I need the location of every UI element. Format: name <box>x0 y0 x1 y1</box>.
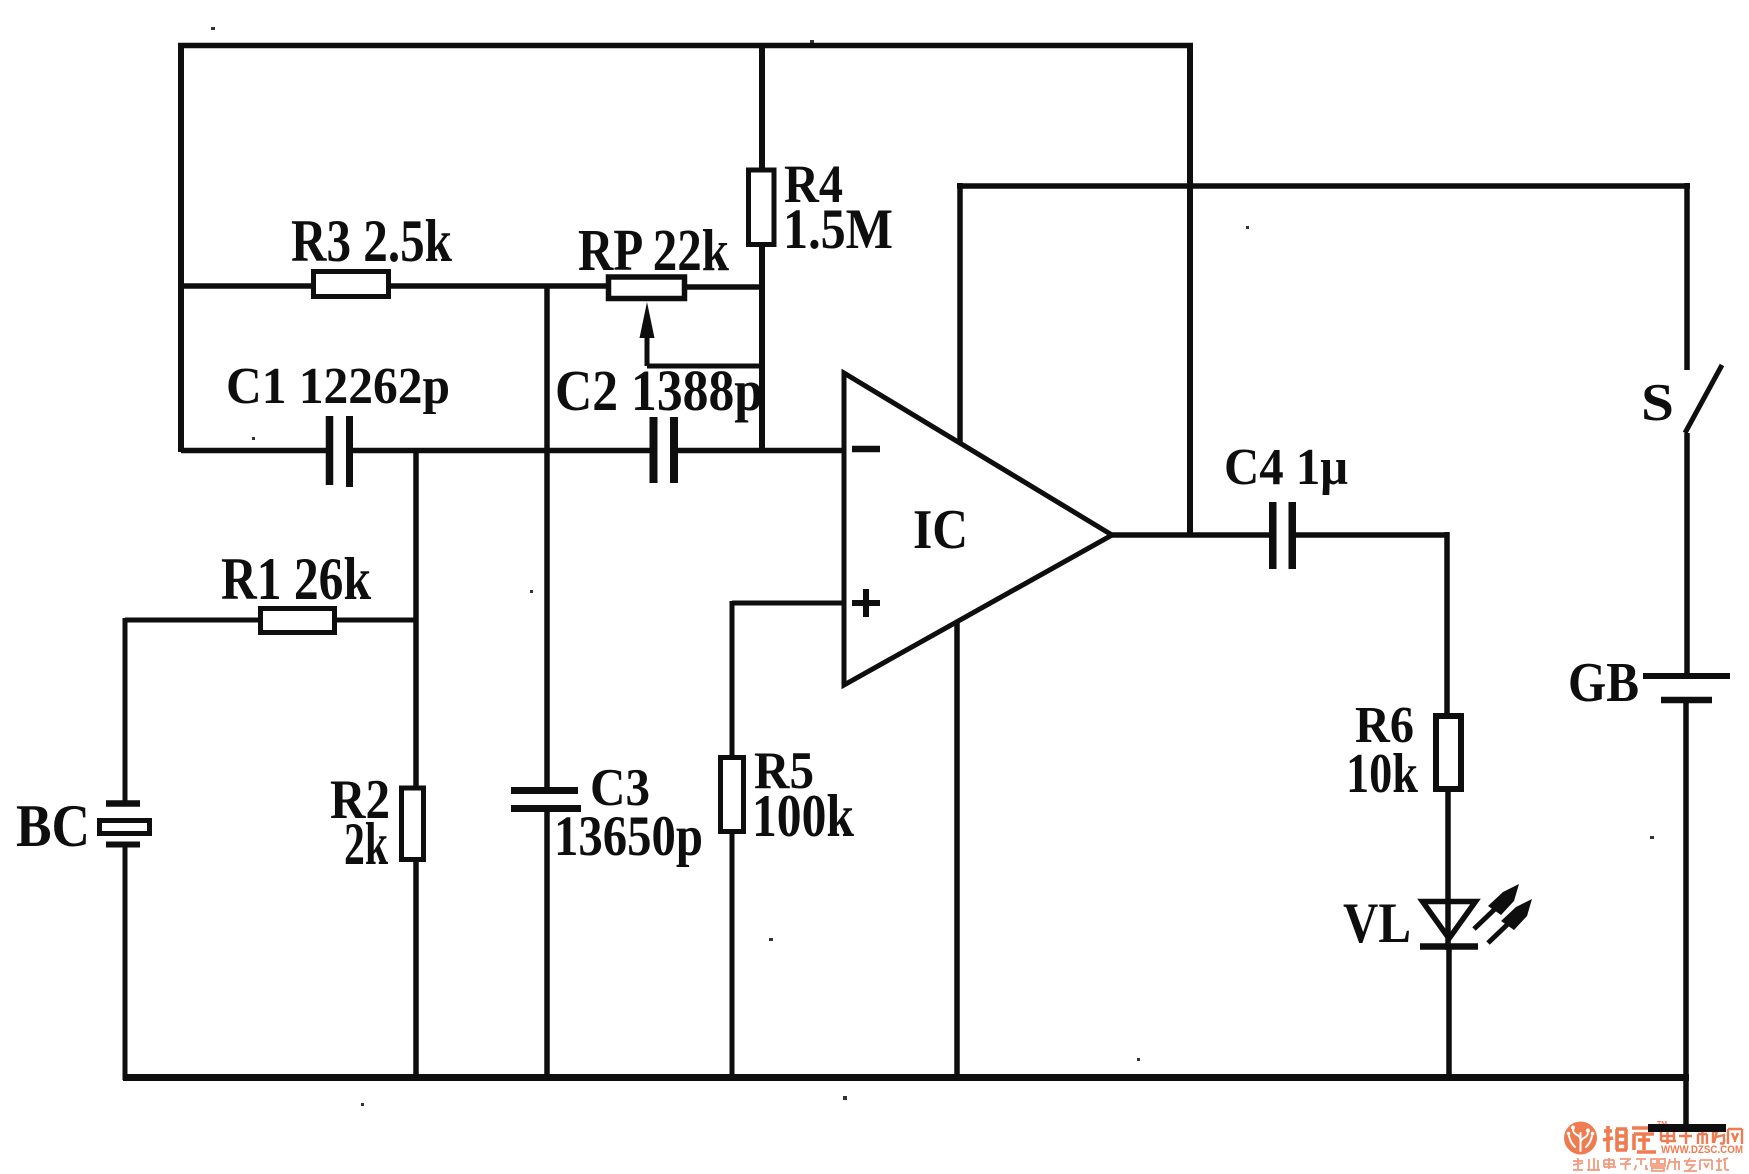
svg-text:100k: 100k <box>752 783 855 849</box>
wire C row left <box>181 448 327 454</box>
wire R3 row left <box>181 283 314 289</box>
svg-text:1.5M: 1.5M <box>783 198 893 261</box>
wire R3RP junction down (x548) <box>544 284 550 788</box>
svg-text:2k: 2k <box>344 811 388 877</box>
wire left vertical <box>178 43 184 452</box>
svg-text:IC: IC <box>913 499 968 561</box>
wire wiper to R4 vertical <box>647 364 762 369</box>
capacitor C3 <box>511 787 578 794</box>
wire op-amp output <box>1112 532 1271 538</box>
wire C3 down to rail <box>544 811 550 1080</box>
potentiometer RP <box>609 277 685 299</box>
svg-text:R3 2.5k: R3 2.5k <box>291 208 453 274</box>
RP wiper arrow <box>640 302 655 338</box>
ground <box>1648 1124 1726 1132</box>
op-amp IC <box>844 373 1112 685</box>
plus input symbol <box>852 600 880 606</box>
wire C row middle <box>353 448 651 454</box>
capacitor C4 <box>1269 502 1277 569</box>
svg-text:VL: VL <box>1343 892 1411 955</box>
svg-text:GB: GB <box>1568 652 1639 714</box>
svg-text:RP 22k: RP 22k <box>578 217 729 283</box>
svg-text:10k: 10k <box>1346 743 1419 805</box>
piezo transducer BC <box>123 618 128 801</box>
capacitor C1 <box>326 416 334 485</box>
svg-text:WWW.DZSC.COM: WWW.DZSC.COM <box>1661 1144 1743 1156</box>
wire R3 to RP <box>388 283 609 289</box>
wire op-amp bottom supply pin <box>954 621 960 1080</box>
battery GB <box>1643 673 1730 679</box>
wire top rail to R4 <box>759 43 765 170</box>
resistor R2 <box>402 788 424 860</box>
wire R2 down to rail <box>413 858 419 1080</box>
svg-text:C1 12262p: C1 12262p <box>226 358 450 415</box>
wire C row right to op-amp <box>678 448 845 454</box>
LED VL <box>1423 902 1476 939</box>
wire C1 junction down (x416) <box>413 448 419 788</box>
resistor R3 <box>314 272 389 297</box>
LED light arrows <box>1474 908 1496 929</box>
wire second rail <box>957 183 1690 189</box>
wire bottom rail <box>123 1074 1689 1081</box>
switch S <box>1684 183 1690 370</box>
wire plus input row <box>732 601 845 606</box>
wire C4 to R6 corner <box>1296 532 1447 538</box>
svg-text:S: S <box>1641 374 1674 432</box>
resistor R4 <box>749 170 775 245</box>
wire op-amp top supply pin <box>957 183 963 444</box>
resistor R6 <box>1436 716 1461 789</box>
resistor R1 <box>261 609 335 633</box>
wire top rail <box>178 43 1193 49</box>
wire LED to rail <box>1446 948 1452 1080</box>
svg-text:C2 1388p: C2 1388p <box>555 358 763 423</box>
svg-text:C4 1μ: C4 1μ <box>1224 439 1348 496</box>
wire feedback vertical <box>1187 43 1193 535</box>
wire R5 down to rail <box>730 831 735 1080</box>
capacitor C2 <box>650 417 658 483</box>
wire R4 down to C2 row <box>759 245 765 452</box>
svg-text:BC: BC <box>16 793 90 859</box>
wire R6 to LED <box>1445 788 1451 950</box>
minus input symbol <box>852 446 880 453</box>
wire RP to R4 node <box>684 284 765 290</box>
svg-text:13650p: 13650p <box>554 805 703 868</box>
resistor R5 <box>730 601 735 758</box>
wire battery to ground <box>1683 703 1689 1128</box>
wire R1 right <box>334 618 416 623</box>
wire R1 left + BC top vertical <box>125 618 261 623</box>
svg-text:R1 26k: R1 26k <box>221 546 372 612</box>
